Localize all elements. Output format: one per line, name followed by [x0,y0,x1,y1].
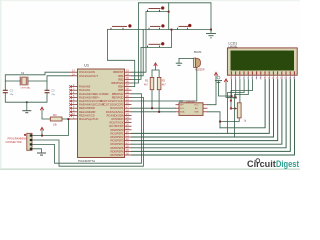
svg-text:RD7/PSP7: RD7/PSP7 [111,153,125,157]
resistor R1 [144,77,154,89]
svg-text:RB0/INT: RB0/INT [113,70,124,74]
MCU left pin labels [79,70,109,121]
svg-text:PIC16F877A: PIC16F877A [78,159,95,163]
wire bus RD2 [132,80,274,138]
wire bus RD6 [132,80,291,152]
CircuitDigest logo [247,158,299,169]
wire crystal OSC1 [5,72,70,90]
MCU left pin stubs [70,72,78,119]
svg-text:RC3/SCK/SCL: RC3/SCK/SCL [106,110,124,114]
junction LCD vdd rail [235,97,237,99]
svg-text:RC6/TX/CK: RC6/TX/CK [109,121,123,125]
svg-text:U1: U1 [84,63,90,68]
svg-text:U2: U2 [179,99,183,103]
svg-text:RE0/AN5/RD: RE0/AN5/RD [79,106,95,110]
junction J1 pin1 +5V [41,135,43,137]
svg-text:SDA: SDA [180,111,185,114]
junction R1 on SCL [151,107,153,109]
junction R2 on SDA [158,111,160,113]
svg-text:C3: C3 [51,89,55,93]
svg-text:RC0/T1OSO/T1CKI: RC0/T1OSO/T1CKI [100,99,124,103]
svg-text:RD2/PSP2: RD2/PSP2 [111,135,125,139]
wire S3 drop to pin RB1 [132,30,144,76]
svg-text:Digest: Digest [276,158,299,169]
junction xtal gnd [26,101,28,103]
wire SDA net [132,111,176,113]
power +5V (J1 vdd) [40,127,44,130]
power +5V (U2) [214,72,218,75]
svg-text:BUZ1: BUZ1 [194,50,202,54]
wire LCD vss gnd [219,80,232,97]
wire row3 riser [170,30,172,48]
svg-text:WP: WP [180,105,184,107]
svg-text:BUZZER: BUZZER [195,70,205,72]
wire top rail drop to pin RB3 [132,3,139,83]
wire LCD vee to pot top [239,80,241,103]
capacitor C3 [45,89,56,96]
wire bus RD3 [132,80,278,141]
svg-text:4k7: 4k7 [162,84,167,87]
power +5V (MCLR pullup) [40,107,44,110]
wire bus RD7 [132,80,295,156]
wire button row2 [107,29,211,31]
wire buzzer drive to RC0 [132,68,197,102]
resistor R3 [50,113,62,127]
svg-text:RD3/PSP3: RD3/PSP3 [111,139,125,143]
ground (J1) [37,153,46,155]
junction S1-right to ground riser [168,11,170,13]
svg-text:X1: X1 [21,71,25,75]
LCD pin stubs and numbers [232,75,295,79]
connector J1 [6,133,33,150]
capacitor C2 [3,89,14,96]
button S4 [178,24,192,30]
svg-text:R2: R2 [162,79,166,83]
MCU right pin numbers [126,70,129,156]
wire bus RD1 [132,80,270,134]
svg-text:4k7: 4k7 [144,84,149,87]
svg-text:RB4: RB4 [118,85,124,89]
svg-text:RC7/RX/DT: RC7/RX/DT [109,124,124,128]
svg-text:RA1/AN1: RA1/AN1 [79,88,91,92]
junction MCLR / J1 VPP [68,118,70,120]
wire SCL net [132,107,176,109]
svg-text:RC1/T1OSI/CCP2: RC1/T1OSI/CCP2 [102,103,124,107]
wire J1 pin1 VPP [32,119,68,136]
svg-text:R1: R1 [145,79,149,83]
wire J1 pin3 PGC to RB6 [32,94,141,163]
wire +5V to J1 [41,131,43,136]
LCD1 LM016L [227,42,297,76]
wire J1 pin4 gnd [32,149,41,153]
MCU right pin stubs [125,72,132,155]
MCU U1 PIC16F877A body [78,63,125,164]
ground (crystal) [22,111,31,113]
svg-text:RD4/PSP4: RD4/PSP4 [111,142,125,146]
wire S2 drop to pin RB4 [107,30,134,87]
svg-text:RD5/PSP5: RD5/PSP5 [111,146,125,150]
wire gnd vertical right of S1 [168,3,170,30]
power +5V (R1 R2) [154,63,158,66]
wire S5 drop to pin RB2 [132,47,142,79]
wire +5V split R1R2 [152,66,156,77]
svg-text:C2: C2 [10,89,14,93]
svg-text:RD0/PSP0: RD0/PSP0 [111,128,125,132]
wire U2 gnd pin drop [208,112,221,122]
svg-text:RC2/CCP1: RC2/CCP1 [110,106,124,110]
svg-text:RB7/PGD: RB7/PGD [112,95,124,99]
ground (buzzer) [176,63,182,65]
svg-text:RB6/PGC: RB6/PGC [112,92,124,96]
wire button row3 [141,46,171,48]
LCD pin name ticks [231,71,295,74]
wire crystal row [5,80,20,82]
svg-text:LM016L: LM016L [229,46,239,49]
svg-text:Circuit: Circuit [247,158,276,169]
pot RV1 [229,96,247,123]
svg-text:OSC1/CLKIN: OSC1/CLKIN [79,70,95,74]
wire bus RD4 [132,80,282,145]
MCU left pin numbers [72,70,75,120]
buzzer BUZ1 [194,50,205,72]
wire buzzer gnd [179,58,194,60]
wire button row1 [146,11,169,13]
wire pot bottom [220,118,239,128]
svg-text:RA0/AN0: RA0/AN0 [79,85,91,89]
svg-text:RD1/PSP1: RD1/PSP1 [111,131,125,135]
wire gnd stem xtal [26,102,28,110]
wire bus RD5 [132,80,287,148]
wire lcd RS [228,80,245,134]
svg-text:24AA64: 24AA64 [186,101,195,104]
svg-text:RC4/SDI/SDA: RC4/SDI/SDA [107,113,124,117]
resistor R2 [157,77,166,89]
junction pot bottom [219,121,221,123]
svg-text:RA2/AN2/VREF-/CVREF: RA2/AN2/VREF-/CVREF [79,92,109,96]
no-connect crosses left pins [69,85,72,116]
svg-text:MCLR/Vpp/THV: MCLR/Vpp/THV [79,117,98,121]
svg-text:PROGRAMMING: PROGRAMMING [8,137,28,140]
ground (top right for buttons) [206,34,216,38]
wire crystal OSC2 [47,76,70,91]
svg-text:RE2/AN7/CS: RE2/AN7/CS [79,113,95,117]
button S3 [149,24,164,29]
EEPROM U2 [176,99,208,116]
wire cap bottom rail [5,93,47,103]
wire J1 pin2 PGD to RB7 [32,97,143,166]
svg-text:OSC2/CLKOUT: OSC2/CLKOUT [79,74,98,78]
button S5 [148,42,165,47]
svg-text:RC5/SDO: RC5/SDO [112,117,124,121]
wire ring pot [220,80,265,128]
svg-text:RB1: RB1 [118,74,124,78]
wire LCD vdd [226,80,236,98]
wire MCLR pullup [42,111,50,120]
ground (LCD vss) [215,76,222,82]
svg-text:CONNECTOR: CONNECTOR [6,141,22,144]
junction row2 at ground riser [210,29,212,31]
svg-text:GND: GND [194,112,199,114]
svg-text:RB3/PGM: RB3/PGM [111,81,124,85]
svg-text:VCC: VCC [194,105,199,107]
svg-text:RD6/PSP6: RD6/PSP6 [111,149,125,153]
wire S1 drop to pin RB0 [132,12,147,73]
button S2 [111,24,131,29]
svg-text:RE1/AN6/WR: RE1/AN6/WR [79,110,95,114]
wire U2 vcc [208,76,217,105]
MCU right pin labels [100,70,124,157]
svg-text:RB5: RB5 [118,88,124,92]
svg-text:RV1: RV1 [229,96,235,100]
junction LCD vss rail [231,95,233,97]
svg-text:R3: R3 [53,113,57,117]
svg-text:RB2: RB2 [118,77,124,81]
svg-text:CRYSTAL: CRYSTAL [21,87,32,90]
junction row2 at row3 riser [171,29,173,31]
crystal X1 [20,71,31,90]
wire lcd E to pot wiper [231,80,253,109]
button S1 [148,7,165,12]
wire top rail [139,3,212,33]
svg-text:RA3/AN3/VREF+: RA3/AN3/VREF+ [79,95,100,99]
wire lcd RW [235,80,249,138]
power +5V (LCD vdd) [224,79,228,82]
